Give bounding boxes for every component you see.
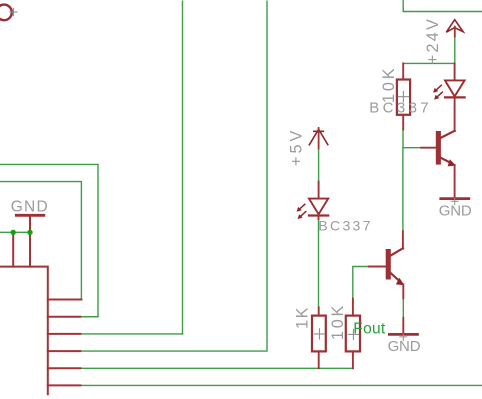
LED2 emission arrow 1 <box>297 204 305 212</box>
ground GND2 <box>441 197 469 200</box>
pin R1 bottom <box>402 115 404 130</box>
Q2 base pin <box>369 266 386 268</box>
Q2 emitter diagonal with arrow <box>391 273 401 282</box>
supply +5V arrow P2 <box>309 129 328 145</box>
origin cross R1 <box>398 92 408 102</box>
pin R2 top <box>318 308 320 316</box>
LED2 cathode bar <box>309 214 328 216</box>
wire red stub1 y=299.5 <box>48 299 82 301</box>
LED2 (middle) <box>309 199 328 215</box>
LED1 emission arrow 1 <box>433 85 441 93</box>
wire top-right corner net <box>403 0 482 12</box>
svg-text:BC337: BC337 <box>318 218 372 234</box>
wire red stub3 y=333.9 <box>48 333 81 335</box>
origin cross R2 <box>314 329 324 339</box>
wire frame B: y=181.6 right to x=81.4 then down <box>0 182 81 300</box>
wire red drop from junction dot x=13.2 <box>12 232 14 266</box>
wire R1 bottom to Q1 base node <box>403 129 421 148</box>
resistor R2 1K <box>312 316 326 352</box>
Q1 emitter diagonal with arrow <box>440 158 452 164</box>
pin LED2 top <box>318 182 320 199</box>
origin cross R3 <box>348 329 358 339</box>
svg-text:GND: GND <box>439 202 472 219</box>
wire Q1 emitter to GND2 <box>454 165 456 197</box>
wire frame A: y=164.4 right to x=98 then down <box>0 164 98 316</box>
LED1 (top right) <box>445 80 465 96</box>
pin LED1 top <box>454 63 456 80</box>
pin R1 top <box>402 63 404 79</box>
wire R3 top to Q2 base <box>353 267 369 299</box>
Q1 base pin <box>421 147 436 149</box>
transistor Q2 BC337 (middle NPN) <box>386 249 391 280</box>
svg-text:+5V: +5V <box>288 128 306 166</box>
origin cross near arc <box>10 9 17 16</box>
wire node down to Q2 collector <box>402 148 404 232</box>
pin R3 top <box>352 299 354 316</box>
wire GND-net horizontal y=232.3 <box>0 231 31 233</box>
wire net N$1 vertical x=182.5 <box>182 1 184 334</box>
wire Q2 emitter to GND3 <box>402 298 404 318</box>
svg-text:GND: GND <box>388 338 421 355</box>
wire red stub2 y=316.7 <box>48 316 81 318</box>
svg-text:BC337: BC337 <box>369 100 432 117</box>
svg-text:10K: 10K <box>329 303 347 340</box>
pin R2 bottom <box>318 351 320 368</box>
LED1 emission arrow 2 <box>434 92 442 100</box>
svg-text:GND: GND <box>11 199 49 216</box>
wire stub2 green y=316.7 <box>80 316 98 318</box>
pin LED2 bottom <box>318 216 320 220</box>
wire stub6 green y=385.4 <box>80 384 482 386</box>
resistor R1 10K (top right) <box>397 80 410 115</box>
wire red stub5 y=368.3 <box>48 367 81 369</box>
wire +24V rail junction y=63.4 <box>403 36 455 63</box>
wire +5V stem green <box>318 149 320 182</box>
pin +24V stem red <box>454 27 456 37</box>
wire net N$2 vertical x=267 with bottom turn <box>80 1 267 351</box>
origin cross GND2 <box>451 198 458 205</box>
Q1 collector diagonal <box>440 131 454 138</box>
svg-text:Fout: Fout <box>353 321 386 338</box>
svg-text:+24V: +24V <box>424 17 442 64</box>
transistor Q1 BC337 (top right NPN) <box>436 131 441 165</box>
pin R3 bottom <box>352 351 354 368</box>
Q2 emitter pin down <box>402 284 404 298</box>
junction dot A <box>11 230 16 235</box>
svg-text:1K: 1K <box>294 306 312 329</box>
wire stub5 green y=368.3 to R2/R3 bottoms <box>80 367 353 369</box>
ground GND3 <box>389 333 417 336</box>
wire red stub6 y=385.4 <box>48 384 81 386</box>
ground GND1 (left, bar above wire) <box>16 214 44 217</box>
pin LED1 bottom to Q1 collector <box>454 97 456 131</box>
wire stub3 green y=333.9 <box>80 333 182 335</box>
pin GND3 stem <box>402 318 404 334</box>
resistor R3 10K <box>346 316 360 352</box>
origin cross GND3 <box>400 334 407 341</box>
bus red vertical x=47.8 <box>0 267 48 395</box>
connector arc (clipped at left edge) <box>0 5 12 21</box>
LED1 cathode bar <box>445 96 465 98</box>
svg-text:10K: 10K <box>380 65 398 103</box>
LED2 emission arrow 2 <box>298 212 306 220</box>
supply +24V arrow P1 <box>446 20 463 33</box>
wire LED3 to R2 <box>318 218 320 308</box>
junction dot B <box>27 230 32 235</box>
Q2 collector diagonal <box>391 248 404 255</box>
wire red GND1 stem x=30 <box>29 216 31 267</box>
wire red stub4 y=351.1 <box>48 350 81 352</box>
pin +5V stem red <box>318 128 320 149</box>
Q2 collector pin up <box>402 231 404 248</box>
